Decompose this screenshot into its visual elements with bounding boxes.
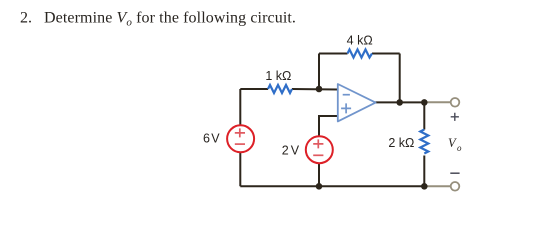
wire feedback right vertical [399,54,401,103]
svg-text:2 kΩ: 2 kΩ [388,136,414,150]
label + (output polarity) [451,113,459,121]
svg-text:1 kΩ: 1 kΩ [265,69,291,83]
resistor R1 1 kΩ [268,85,292,93]
wire op-amp output [375,101,424,103]
svg-text:V: V [291,143,300,157]
label − (output polarity) [450,172,459,174]
svg-text:V: V [448,136,457,150]
node bottom 2k junction [421,183,428,190]
wire left branch vertical (6V source branch) [239,89,241,186]
node output-2k junction [421,99,428,106]
svg-text:2: 2 [282,143,289,157]
node inverting input [316,86,323,93]
title text [20,10,296,29]
op-amp U1 [338,84,376,121]
wire bottom rail [240,185,424,187]
wire 2kΩ branch vertical [423,102,425,186]
svg-text:o: o [457,143,462,153]
resistor R2 4 kΩ [348,50,373,58]
svg-text:2.: 2. [20,10,32,27]
terminal bottom (open circle) [451,182,460,191]
voltage source V2 2 V [306,136,333,163]
resistor R3 2 kΩ [420,130,428,154]
wire top-left to inverting node (through R1) [240,88,337,91]
wire feedback left vertical [318,54,320,90]
wire noninverting input [319,116,338,137]
voltage source V1 6 V [227,125,254,152]
terminal top (open circle) [451,98,460,107]
node bottom 2V junction [316,183,323,190]
svg-text:6: 6 [203,131,210,145]
svg-text:V: V [211,131,220,145]
wire feedback top rail (through R2) [319,53,400,55]
node feedback-output junction [396,99,403,106]
wire to output terminal top (grey) [424,101,451,103]
svg-text:4 kΩ: 4 kΩ [347,34,373,48]
svg-text:Determine Vo for the following: Determine Vo for the following circuit. [44,10,296,29]
wire to output terminal bottom (grey) [424,185,451,187]
wire 2V source to bottom rail [318,164,320,186]
